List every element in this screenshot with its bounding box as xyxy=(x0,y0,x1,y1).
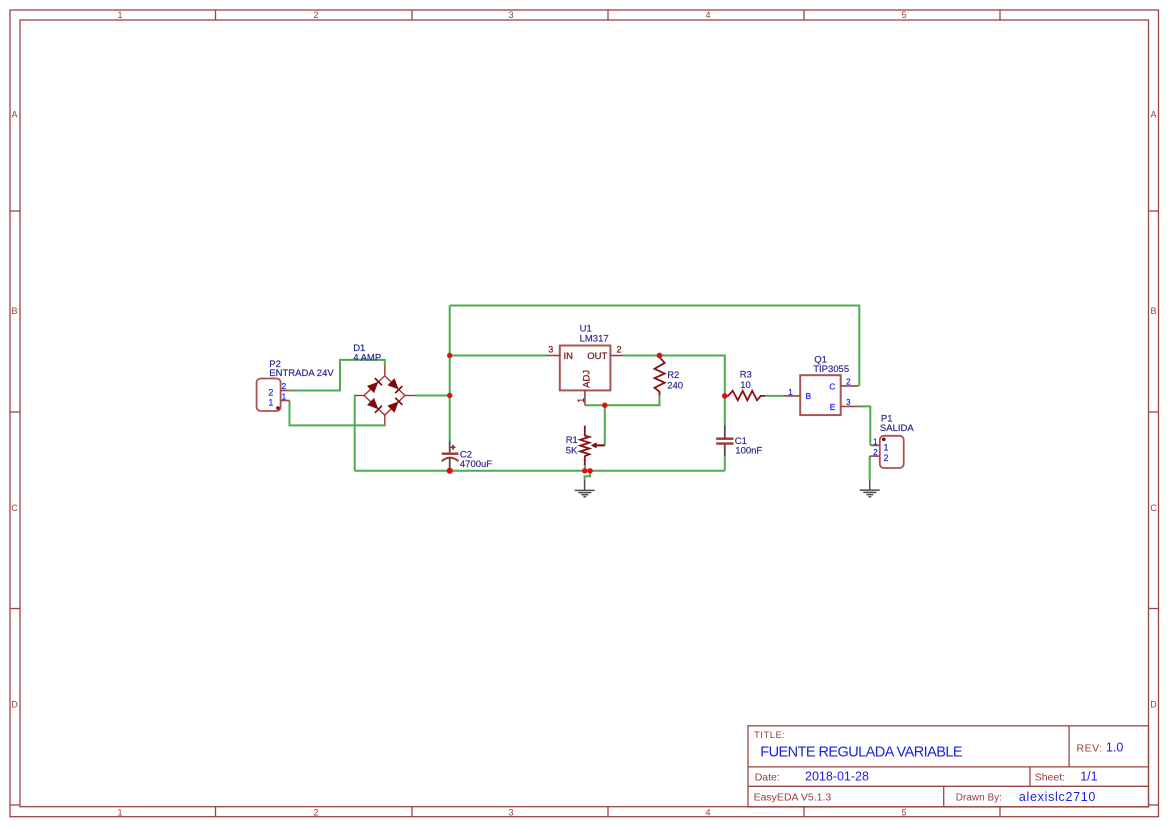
svg-text:alexislc2710: alexislc2710 xyxy=(1019,790,1096,804)
regulator U1 LM317 xyxy=(548,324,623,406)
svg-text:B: B xyxy=(1150,306,1156,316)
title block xyxy=(748,726,1149,807)
wire rail to U1 IN pin xyxy=(450,355,548,357)
SCHEMATIC xyxy=(257,306,915,497)
svg-text:Drawn By:: Drawn By: xyxy=(956,793,1002,804)
wire bottom rail xyxy=(355,470,725,472)
wire D1 left corner to bottom rail xyxy=(354,396,357,471)
svg-text:C: C xyxy=(1150,503,1157,513)
resistor R2 240 xyxy=(655,356,684,396)
svg-text:4700uF: 4700uF xyxy=(460,459,492,470)
svg-text:2: 2 xyxy=(846,378,851,387)
connector P1 SALIDA xyxy=(870,414,915,469)
svg-text:5: 5 xyxy=(901,10,906,20)
wire D1 right corner to main vertical rail xyxy=(415,395,450,397)
svg-text:A: A xyxy=(11,110,17,120)
svg-text:2: 2 xyxy=(313,808,318,818)
svg-text:5: 5 xyxy=(901,808,906,818)
svg-text:EasyEDA V5.1.3: EasyEDA V5.1.3 xyxy=(754,792,832,804)
wire U1 OUT to R2 and down to R3 node xyxy=(623,356,725,426)
svg-text:R2: R2 xyxy=(667,370,679,381)
svg-text:2: 2 xyxy=(616,344,621,354)
svg-text:OUT: OUT xyxy=(587,351,607,362)
connector P2 ENTRADA 24V xyxy=(257,359,335,411)
svg-text:C: C xyxy=(829,381,835,391)
svg-text:10: 10 xyxy=(740,380,751,391)
wire rail jog to ground 1 xyxy=(585,471,591,481)
bridge rectifier D1 4 AMP xyxy=(353,343,415,424)
svg-text:B: B xyxy=(11,306,17,316)
capacitor C1 100nF xyxy=(716,425,762,456)
svg-text:3: 3 xyxy=(508,10,513,20)
svg-text:FUENTE REGULADA VARIABLE: FUENTE REGULADA VARIABLE xyxy=(760,745,963,761)
svg-text:1.0: 1.0 xyxy=(1106,741,1123,755)
svg-text:1: 1 xyxy=(576,398,586,403)
svg-text:3: 3 xyxy=(846,398,851,407)
wire P1 pin2 to ground 2 xyxy=(869,456,871,480)
svg-text:2: 2 xyxy=(313,10,318,20)
svg-text:ENTRADA 24V: ENTRADA 24V xyxy=(269,368,334,379)
svg-text:2: 2 xyxy=(282,382,287,391)
svg-text:ADJ: ADJ xyxy=(582,370,593,388)
svg-text:1: 1 xyxy=(873,438,878,447)
svg-text:C: C xyxy=(11,503,18,513)
svg-text:D: D xyxy=(1150,700,1157,710)
svg-text:5K: 5K xyxy=(566,445,578,456)
wire C1 bottom to rail xyxy=(724,456,726,471)
wire ADJ node to R1 wiper xyxy=(604,405,606,445)
svg-text:3: 3 xyxy=(508,808,513,818)
junction node ground jog on rail xyxy=(587,468,592,473)
potentiometer R1 5K xyxy=(566,426,605,466)
wire Q1 emitter to P1 pin1 xyxy=(859,406,871,445)
svg-text:1: 1 xyxy=(282,392,287,401)
junction node R3 left xyxy=(722,393,728,399)
junction node rail-U1 IN xyxy=(447,353,452,358)
svg-text:A: A xyxy=(1150,110,1156,120)
svg-text:3: 3 xyxy=(548,344,553,354)
svg-text:LM317: LM317 xyxy=(580,334,609,345)
svg-text:1: 1 xyxy=(117,808,122,818)
svg-text:B: B xyxy=(806,391,812,401)
svg-text:SALIDA: SALIDA xyxy=(880,423,914,434)
resistor R3 10 xyxy=(725,370,765,401)
svg-text:240: 240 xyxy=(667,381,683,392)
svg-text:2: 2 xyxy=(883,453,888,463)
svg-text:1: 1 xyxy=(883,443,888,453)
svg-text:4: 4 xyxy=(705,10,710,20)
wire top rail to Q1 collector xyxy=(450,306,860,386)
svg-text:REV:: REV: xyxy=(1077,743,1103,755)
wire main vertical rail xyxy=(449,306,451,441)
junction node OUT-R2 xyxy=(657,353,663,359)
transistor Q1 TIP3055 xyxy=(783,354,859,415)
svg-text:1/1: 1/1 xyxy=(1080,769,1097,783)
svg-text:E: E xyxy=(830,402,836,412)
svg-text:4: 4 xyxy=(705,808,710,818)
junction node D1 right corner xyxy=(447,393,452,398)
svg-text:4 AMP: 4 AMP xyxy=(353,353,381,364)
svg-text:Date:: Date: xyxy=(755,771,780,783)
ground 1 under R1 xyxy=(575,481,595,497)
svg-text:2: 2 xyxy=(873,448,878,457)
svg-text:TIP3055: TIP3055 xyxy=(813,364,849,375)
svg-text:100nF: 100nF xyxy=(735,445,762,456)
svg-text:1: 1 xyxy=(117,10,122,20)
ground 2 under P1 xyxy=(860,480,880,497)
wire P2 pin2 to D1 pin4 xyxy=(290,360,385,391)
wire R3 to Q1 base xyxy=(765,395,783,397)
svg-text:IN: IN xyxy=(564,351,574,362)
svg-text:TITLE:: TITLE: xyxy=(754,730,786,741)
svg-text:D: D xyxy=(11,700,18,710)
junction node rail-bottom xyxy=(447,468,453,474)
junction node R1 bottom on rail xyxy=(582,468,587,473)
junction node ADJ-R1 wiper xyxy=(602,403,607,408)
svg-text:1: 1 xyxy=(268,398,273,408)
svg-text:2018-01-28: 2018-01-28 xyxy=(805,769,869,783)
capacitor C2 4700uF xyxy=(442,441,493,471)
svg-text:2: 2 xyxy=(268,388,273,398)
svg-text:1: 1 xyxy=(788,388,793,397)
wire P2 pin1 to D1 bottom xyxy=(290,401,385,426)
wire R2 bottom to ADJ net xyxy=(585,395,660,405)
wire R1 bottom to rail xyxy=(584,465,586,471)
svg-text:Sheet:: Sheet: xyxy=(1035,771,1065,783)
svg-text:R1: R1 xyxy=(566,435,578,446)
